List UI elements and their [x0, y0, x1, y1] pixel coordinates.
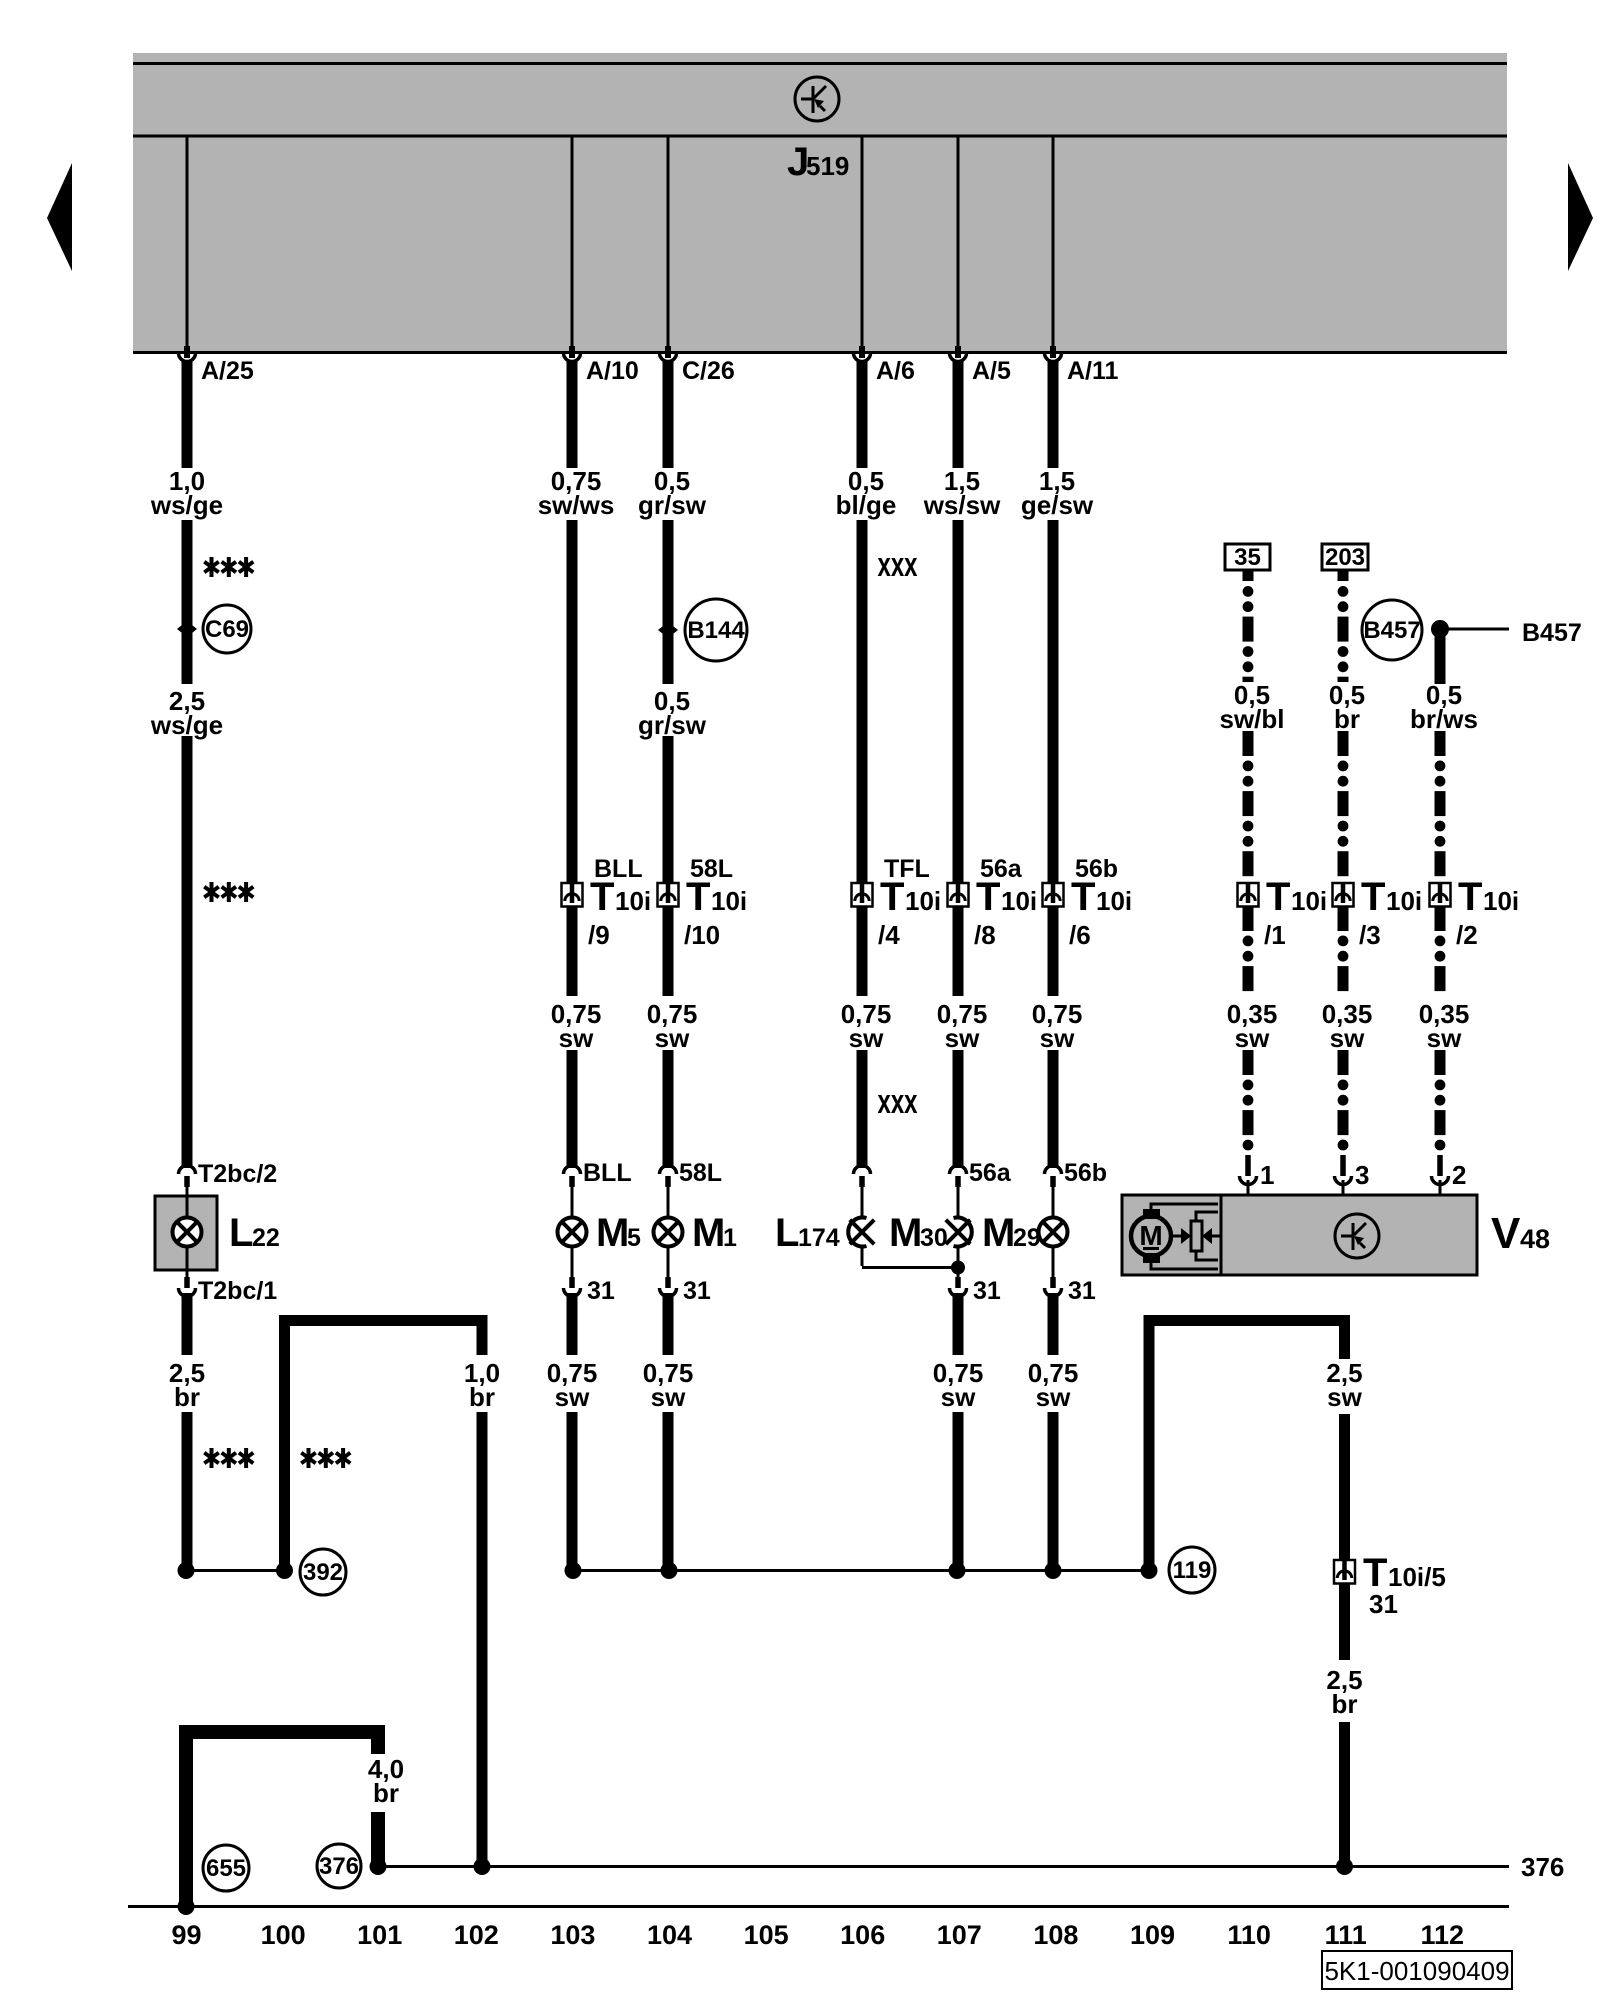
J519 pin A/5 [957, 137, 960, 346]
lamp M1 symbol [654, 1218, 683, 1247]
svg-text:/3: /3 [1359, 920, 1381, 950]
wire segment (dotted) [1435, 906, 1446, 931]
wire to lamp [957, 1187, 960, 1218]
svg-text:sw: sw [555, 1382, 590, 1412]
wire segment [663, 1050, 674, 1168]
svg-text:sw: sw [1040, 1023, 1075, 1053]
svg-text:sw: sw [941, 1382, 976, 1412]
svg-text:519: 519 [806, 151, 849, 181]
wire 1,5 ge/sw from J519 [1048, 360, 1059, 468]
svg-text:/6: /6 [1069, 920, 1091, 950]
wire label 0,75 sw [841, 999, 892, 1053]
wire label 0,75 sw [551, 999, 602, 1053]
wire 0,5 br/ws [1435, 631, 1446, 684]
svg-text:48: 48 [1520, 1224, 1550, 1254]
dot 376/c13 [1336, 1858, 1353, 1875]
wire label 0,5 sw/bl [1219, 680, 1284, 734]
ground connection 119 [1169, 1547, 1215, 1593]
wire segment (dotted) [1338, 1050, 1349, 1075]
ground top bar right [1144, 1315, 1351, 1326]
lamp unit L22 box [155, 1196, 217, 1270]
terminal box 203 [1322, 544, 1368, 570]
dot bottom/655 [178, 1898, 195, 1915]
junction on c3 at B144 [658, 622, 678, 638]
wire segment [953, 906, 964, 996]
connector T10i/1 [1238, 883, 1259, 907]
wire label 1,0 br [464, 1358, 500, 1412]
ground connection 376 [317, 1844, 361, 1888]
ground dot x=669 [661, 1562, 678, 1579]
svg-text:119: 119 [1173, 1557, 1212, 1584]
wire segment [663, 736, 674, 883]
svg-text:sw: sw [1327, 1382, 1362, 1412]
svg-text:/1: /1 [1264, 920, 1286, 950]
wire label 0,75 sw [647, 999, 698, 1053]
svg-text:174: 174 [798, 1224, 840, 1252]
svg-text:br: br [174, 1382, 200, 1412]
dot 376/4.0br [370, 1858, 387, 1875]
ground connection 392 [300, 1549, 346, 1595]
V48 pin 3 [1335, 1155, 1352, 1196]
svg-text:102: 102 [454, 1920, 499, 1950]
svg-text:106: 106 [840, 1920, 885, 1950]
ground wire 655 leg [179, 1739, 193, 1906]
connector T10i/5 [1334, 1560, 1355, 1584]
svg-text:sw: sw [651, 1382, 686, 1412]
dot 376/c10 [474, 1858, 491, 1875]
svg-text:T: T [590, 875, 614, 919]
V48 pin 2 [1432, 1155, 1449, 1196]
J519 bottom edge [133, 351, 1507, 354]
wire label 0,5 br [1329, 680, 1365, 734]
wire segment (dotted) [1338, 906, 1349, 931]
svg-text:376: 376 [319, 1853, 359, 1880]
J519 pin A/25 [186, 137, 189, 346]
wire label 0,75 sw [933, 1358, 984, 1412]
svg-text:31: 31 [973, 1277, 1001, 1305]
label T10i/4 [878, 875, 941, 950]
wire from lamp [667, 1246, 670, 1277]
connection circle B457 [1362, 600, 1422, 660]
svg-text:br: br [469, 1382, 495, 1412]
wire stub below terminal box [1338, 570, 1349, 581]
wire label 2,5 ws/ge [150, 686, 223, 740]
connector 31 [950, 1277, 967, 1297]
svg-text:107: 107 [937, 1920, 982, 1950]
wire inside L22 lower [186, 1246, 189, 1270]
wire label 0,75 sw [547, 1358, 598, 1412]
svg-text:sw: sw [945, 1023, 980, 1053]
wire from lamp L174 [861, 1246, 864, 1266]
wire to lamp L174 [861, 1187, 864, 1218]
wire segment (dotted) [1435, 731, 1446, 756]
label M5 [596, 1211, 641, 1255]
svg-text:10i: 10i [1386, 886, 1422, 916]
ground wire c11 riser [279, 1315, 290, 1570]
connector pin BLL [564, 1166, 581, 1188]
wire 0,75 sw/ws from J519 [567, 360, 578, 468]
motor V48 box [1122, 1195, 1477, 1275]
wire 0,75 sw to ground [1048, 1293, 1059, 1355]
bottom border line [128, 1905, 1509, 1908]
svg-text:xxx: xxx [878, 1083, 918, 1121]
wire label 0,35 sw [1322, 999, 1373, 1053]
terminal box 35 [1225, 544, 1270, 570]
svg-text:111: 111 [1325, 1920, 1367, 1950]
connection B144 [685, 599, 747, 661]
svg-text:10i/5: 10i/5 [1388, 1562, 1446, 1592]
ground bottom bar [179, 1725, 385, 1739]
label T10i/10 [684, 875, 747, 950]
wire segment (dotted) [1338, 731, 1349, 756]
wire link to 392 [186, 1569, 285, 1572]
svg-text:xxx: xxx [878, 546, 918, 584]
wire segment [567, 1050, 578, 1168]
wire label 0,75 sw [643, 1358, 694, 1412]
svg-text:105: 105 [744, 1920, 789, 1950]
wire segment to ground rail [567, 1412, 578, 1571]
svg-text:ws/ge: ws/ge [150, 490, 223, 520]
wire from lamp [957, 1246, 960, 1277]
svg-text:br/ws: br/ws [1410, 704, 1478, 734]
wire 0,75 sw to ground [953, 1293, 964, 1355]
wire segment [1048, 1050, 1059, 1168]
ground rail [573, 1569, 1149, 1572]
junction on c1 at C69 [177, 621, 197, 637]
wire 0,5 sw/bl (dotted) [1243, 586, 1254, 597]
svg-text:56b: 56b [1064, 1159, 1107, 1187]
wire 1,0 ws/ge from J519 A/25 [182, 360, 193, 468]
left page arrow [47, 163, 72, 271]
svg-text:5K1-001090409: 5K1-001090409 [1324, 1956, 1509, 1986]
svg-text:A/25: A/25 [201, 357, 254, 385]
marker *** c11 [301, 1448, 350, 1468]
label L22 [229, 1211, 280, 1255]
V48 pin 1 [1240, 1155, 1257, 1196]
wire L174 to node below M30 [862, 1266, 958, 1269]
wire 2,5 br to ground [182, 1293, 193, 1355]
svg-text:10i: 10i [1291, 886, 1327, 916]
connector pin 58L [660, 1166, 677, 1188]
svg-text:sw: sw [655, 1023, 690, 1053]
svg-text:C/26: C/26 [682, 357, 735, 385]
wire segment [953, 1050, 964, 1168]
label T10i/2 [1456, 875, 1519, 950]
svg-text:sw: sw [1330, 1023, 1365, 1053]
svg-text:/10: /10 [684, 920, 720, 950]
wire stub below terminal box [1243, 570, 1254, 581]
svg-text:M: M [596, 1211, 629, 1255]
wire 0,75 sw to ground [663, 1293, 674, 1355]
svg-text:22: 22 [252, 1224, 280, 1252]
svg-text:108: 108 [1033, 1920, 1078, 1950]
node B457 junction dot [1431, 620, 1449, 638]
svg-text:sw: sw [559, 1023, 594, 1053]
connector T10i/8 [948, 883, 969, 907]
junction dot 392 leg [276, 1562, 293, 1579]
svg-text:110: 110 [1227, 1920, 1271, 1950]
svg-text:M: M [982, 1211, 1015, 1255]
J519 pin A/6 [861, 137, 864, 346]
svg-text:A/10: A/10 [586, 357, 639, 385]
svg-text:112: 112 [1421, 1920, 1465, 1950]
connector T10i/4 [852, 883, 873, 907]
svg-text:T: T [1266, 875, 1290, 919]
connector T2bc/1 [179, 1270, 196, 1297]
wire 0,5 br (dotted) [1338, 586, 1349, 597]
wire label 0,5 bl/ge [836, 466, 897, 520]
connector pin at L174 [854, 1166, 871, 1188]
ground wire c13 sw [1339, 1315, 1350, 1359]
label T10i/8 [974, 875, 1037, 950]
wire segment (dotted) [1243, 1050, 1254, 1075]
svg-text:sw: sw [1427, 1023, 1462, 1053]
svg-text:L: L [229, 1211, 253, 1255]
svg-text:3: 3 [1355, 1160, 1369, 1190]
wire segment [857, 520, 868, 883]
label M1 [692, 1211, 737, 1255]
ground wire 4,0 br leg [371, 1739, 385, 1754]
connector T2bc/2 [179, 1166, 196, 1188]
wire label 0,5 br/ws [1410, 680, 1478, 734]
svg-text:30: 30 [920, 1224, 948, 1252]
svg-text:M: M [1139, 1220, 1162, 1251]
label T10i/3 [1359, 875, 1422, 950]
svg-text:C69: C69 [205, 616, 249, 643]
svg-text:29: 29 [1013, 1224, 1041, 1252]
connector 31 [564, 1277, 581, 1297]
marker *** c1 lower [204, 1448, 253, 1468]
wire segment [663, 906, 674, 996]
svg-text:M: M [692, 1211, 725, 1255]
wire label 2,5 sw [1326, 1358, 1362, 1412]
J519 pin A/11 [1052, 137, 1055, 346]
svg-text:A/6: A/6 [876, 357, 915, 385]
wire from lamp [1052, 1246, 1055, 1277]
wire segment [663, 520, 674, 684]
V48 internal K symbol [1335, 1214, 1379, 1258]
wire segment [857, 906, 868, 996]
wire label 0,5 gr/sw [638, 466, 707, 520]
svg-text:10i: 10i [615, 886, 651, 916]
wire 0,75 sw to ground [567, 1293, 578, 1355]
J519 top inner line [133, 62, 1507, 65]
svg-text:31: 31 [1369, 1589, 1398, 1619]
svg-text:B144: B144 [687, 617, 745, 644]
svg-text:br: br [373, 1778, 399, 1808]
svg-text:T: T [976, 875, 1000, 919]
ground connection 655 [203, 1845, 249, 1891]
lamp M30 symbol [946, 1218, 972, 1247]
svg-text:58L: 58L [679, 1159, 722, 1187]
svg-text:56a: 56a [969, 1159, 1012, 1187]
wire from lamp [571, 1246, 574, 1277]
svg-text:31: 31 [587, 1277, 615, 1305]
svg-text:2: 2 [1452, 1160, 1466, 1190]
connector T10i/10 [658, 883, 679, 907]
wire label 1,5 ws/sw [923, 466, 1001, 520]
svg-text:655: 655 [206, 1855, 246, 1882]
connector T10i/6 [1043, 883, 1064, 907]
svg-text:T: T [1361, 875, 1385, 919]
wire label 4,0 br [368, 1754, 404, 1808]
svg-text:/2: /2 [1456, 920, 1478, 950]
rail 376 [378, 1865, 1509, 1868]
connector T10i/3 [1333, 883, 1354, 907]
svg-text:31: 31 [683, 1277, 711, 1305]
wire label 2,5 br [1326, 1665, 1362, 1719]
ground dot x=957 [949, 1562, 966, 1579]
J519 pin A/10 [571, 137, 574, 346]
label L174 [775, 1211, 840, 1255]
marker *** c1 middle [204, 882, 253, 902]
svg-text:/9: /9 [588, 920, 610, 950]
svg-text:B457: B457 [1522, 619, 1582, 647]
right page arrow [1568, 163, 1593, 271]
wire 2,5 ws/ge [182, 736, 193, 1168]
wire segment (dotted) [1243, 731, 1254, 756]
wire segment [567, 520, 578, 883]
ground dot x=1053 [1045, 1562, 1062, 1579]
connector T10i/9 [562, 883, 583, 907]
connector pin 56a [950, 1166, 967, 1188]
svg-text:376: 376 [1521, 1852, 1564, 1882]
sheet number box [1322, 1951, 1512, 1989]
lamp M5 symbol [558, 1218, 587, 1247]
svg-text:br: br [1332, 1689, 1358, 1719]
svg-text:BLL: BLL [583, 1159, 632, 1187]
svg-text:392: 392 [303, 1559, 343, 1586]
marker *** c1 upper [204, 557, 253, 577]
wire segment (dotted) [1435, 1050, 1446, 1075]
connector pin 56b [1045, 1166, 1062, 1188]
junction dot L174/M30 [951, 1261, 965, 1275]
wire segment [1048, 906, 1059, 996]
svg-text:T: T [686, 875, 710, 919]
svg-text:V: V [1491, 1209, 1521, 1258]
wire segment [1048, 520, 1059, 883]
wire label 0,35 sw [1227, 999, 1278, 1053]
wire segment (dotted) [1243, 906, 1254, 931]
svg-text:A/5: A/5 [972, 357, 1011, 385]
wire segment [567, 906, 578, 996]
junction dot c1 ground [178, 1562, 195, 1579]
svg-text:gr/sw: gr/sw [638, 490, 707, 520]
svg-text:ws/sw: ws/sw [923, 490, 1001, 520]
wire segment [182, 1412, 193, 1570]
wire label 2,5 br [169, 1358, 205, 1412]
wire label 0,75 sw [937, 999, 988, 1053]
svg-text:bl/ge: bl/ge [836, 490, 897, 520]
svg-text:104: 104 [647, 1920, 692, 1950]
svg-text:10i: 10i [1096, 886, 1132, 916]
connection C69 [203, 605, 251, 653]
svg-text:B457: B457 [1363, 617, 1420, 644]
wire label 0,75 sw/ws [538, 466, 615, 520]
wire segment to ground rail [1048, 1412, 1059, 1571]
svg-text:L: L [775, 1211, 799, 1255]
svg-text:br: br [1334, 704, 1360, 734]
ground dot x=573 [565, 1562, 582, 1579]
label T10i/6 [1069, 875, 1132, 950]
svg-text:sw/bl: sw/bl [1219, 704, 1284, 734]
svg-text:5: 5 [627, 1224, 641, 1252]
svg-text:101: 101 [357, 1920, 402, 1950]
wire 0,5 gr/sw from J519 [663, 360, 674, 468]
lamp M29 symbol [1039, 1218, 1068, 1247]
svg-text:sw/ws: sw/ws [538, 490, 615, 520]
svg-text:99: 99 [171, 1920, 201, 1950]
svg-text:sw: sw [1036, 1382, 1071, 1412]
svg-text:T2bc/2: T2bc/2 [198, 1160, 277, 1188]
ground wire c12 riser [1144, 1315, 1155, 1570]
connector 31 [1045, 1277, 1062, 1297]
svg-text:31: 31 [1068, 1277, 1096, 1305]
svg-text:10i: 10i [711, 886, 747, 916]
wire into L22 [186, 1187, 189, 1196]
connector 31 [660, 1277, 677, 1297]
svg-text:M: M [889, 1211, 922, 1255]
svg-text:sw: sw [849, 1023, 884, 1053]
svg-text:35: 35 [1234, 544, 1261, 571]
svg-text:1: 1 [723, 1224, 737, 1252]
J519 internal K symbol [795, 77, 839, 121]
svg-text:/8: /8 [974, 920, 996, 950]
J519 middle line [133, 135, 1507, 138]
wire to B457 label [1445, 628, 1509, 631]
svg-text:A/11: A/11 [1067, 357, 1119, 385]
svg-text:10i: 10i [905, 886, 941, 916]
connector T10i/2 [1430, 883, 1451, 907]
wire segment [182, 520, 193, 684]
wire segment to ground rail [663, 1412, 674, 1571]
svg-text:10i: 10i [1483, 886, 1519, 916]
svg-text:/4: /4 [878, 920, 900, 950]
svg-text:sw: sw [1235, 1023, 1270, 1053]
label T10i/9 [588, 875, 651, 950]
wire inside L22 [186, 1196, 189, 1218]
wire label 1,0 ws/ge [150, 466, 223, 520]
svg-text:ws/ge: ws/ge [150, 710, 223, 740]
svg-text:T: T [1071, 875, 1095, 919]
wire label 0,35 sw [1419, 999, 1470, 1053]
control unit J519 box [133, 53, 1507, 354]
svg-text:203: 203 [1325, 544, 1365, 571]
J519 pin C/26 [667, 137, 670, 346]
wire label 0,75 sw [1028, 1358, 1079, 1412]
wire segment [953, 520, 964, 883]
ground wire c10 br [477, 1315, 488, 1355]
svg-text:T: T [1458, 875, 1482, 919]
lamp L174 symbol [848, 1218, 874, 1247]
svg-text:1: 1 [1260, 1160, 1274, 1190]
label T10i/1 [1264, 875, 1327, 950]
wire to lamp [571, 1187, 574, 1218]
svg-text:100: 100 [261, 1920, 306, 1950]
svg-text:109: 109 [1130, 1920, 1175, 1950]
wire to lamp [667, 1187, 670, 1218]
wire 1,5 ws/sw from J519 [953, 360, 964, 468]
svg-text:103: 103 [550, 1920, 595, 1950]
motor symbol M [1131, 1204, 1220, 1269]
wire label 0,5 gr/sw [638, 686, 707, 740]
lamp L22 symbol [173, 1218, 202, 1247]
wire label 1,5 ge/sw [1021, 466, 1094, 520]
ground dot x=1149 [1141, 1562, 1158, 1579]
svg-text:gr/sw: gr/sw [638, 710, 707, 740]
svg-text:T: T [880, 875, 904, 919]
wire label 0,75 sw [1032, 999, 1083, 1053]
